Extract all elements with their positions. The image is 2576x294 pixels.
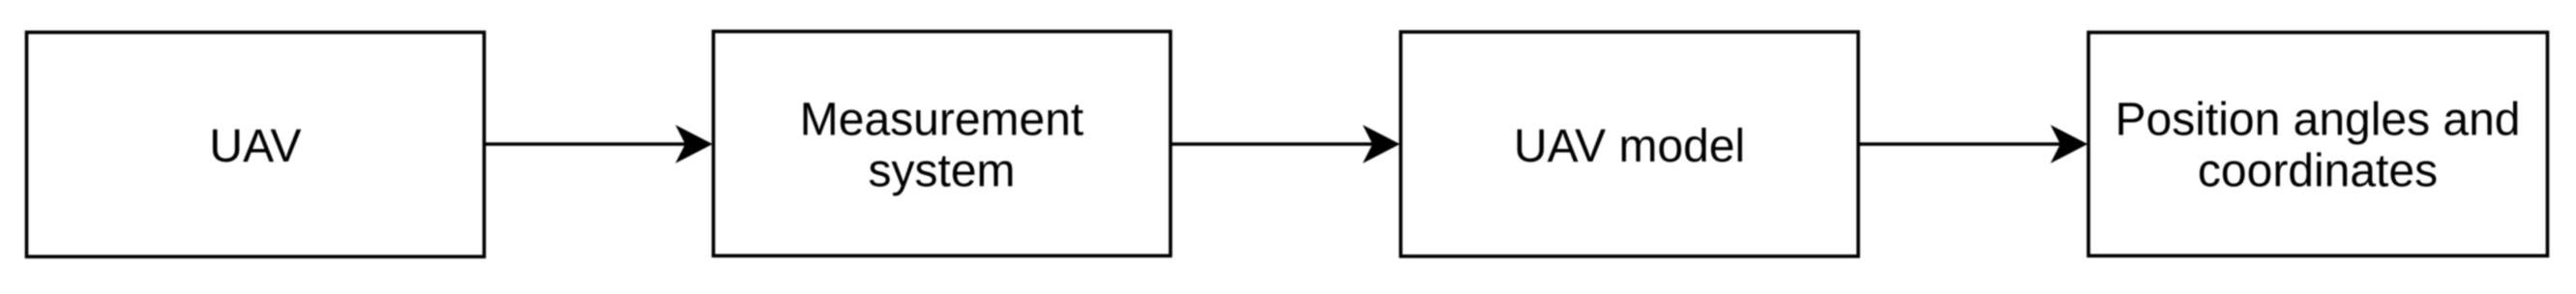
arrowhead into Position angles and coordinates (2053, 128, 2086, 162)
svg-text:UAV model: UAV model (1514, 121, 1745, 172)
svg-text:system: system (868, 146, 1015, 197)
svg-text:Position angles and: Position angles and (2116, 95, 2521, 146)
box UAV model (1401, 32, 1858, 256)
arrowhead into Measurement system (678, 128, 711, 162)
arrowhead into UAV model (1365, 128, 1398, 162)
svg-text:Measurement: Measurement (800, 95, 1083, 146)
box Measurement system (714, 32, 1171, 256)
svg-text:coordinates: coordinates (2198, 146, 2438, 197)
wire UAV model to Position angles and coordinates (1860, 142, 2064, 146)
box Position angles and coordinates (2088, 33, 2548, 256)
wire Measurement system to UAV model (1172, 142, 1377, 146)
svg-text:UAV: UAV (209, 121, 301, 172)
wire UAV to Measurement system (486, 142, 689, 146)
box UAV (27, 32, 485, 256)
